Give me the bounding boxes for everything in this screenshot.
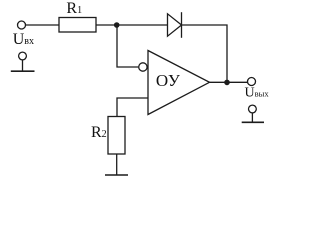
svg-text:Uвых: Uвых bbox=[245, 86, 270, 101]
node junction after R1 bbox=[114, 22, 120, 28]
wire non-inverting input to R2 bbox=[117, 98, 148, 117]
wire input to R1 bbox=[26, 24, 60, 26]
resistor R2 bbox=[108, 117, 125, 155]
op-amp U1 triangle bbox=[148, 51, 210, 115]
output terminal Uvyx bbox=[248, 78, 256, 86]
diode VD bbox=[168, 12, 182, 38]
node output junction bbox=[224, 80, 230, 86]
wire diode to corner and down (feedback) bbox=[182, 25, 228, 82]
wire R1 to diode bbox=[96, 24, 168, 26]
ground terminal under Uvyx bbox=[242, 105, 264, 122]
op-amp inverting input bubble bbox=[139, 63, 147, 71]
resistor R1 bbox=[59, 18, 96, 33]
wire R2 to ground bbox=[116, 154, 118, 175]
ground terminal under Uvx bbox=[11, 52, 35, 71]
wire op-amp output to terminal bbox=[210, 81, 248, 83]
input terminal Uvx bbox=[18, 21, 26, 29]
ground under R2 bbox=[105, 174, 128, 176]
svg-text:ОУ: ОУ bbox=[156, 71, 181, 90]
wire node to inverting input bbox=[117, 25, 138, 67]
